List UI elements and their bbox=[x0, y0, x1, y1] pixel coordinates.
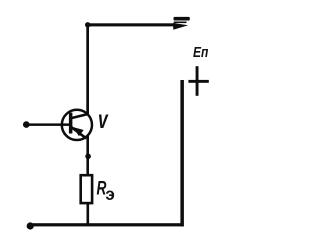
wire bottom rail bbox=[30, 223, 184, 226]
wire emitter vertical bbox=[86, 136, 89, 175]
svg-text:Еп: Еп bbox=[193, 44, 209, 61]
emitter slant bbox=[70, 126, 87, 140]
emitter arrow (PNP, points toward base) bbox=[73, 127, 84, 136]
svg-text:э: э bbox=[105, 184, 114, 205]
node base terminal dot bbox=[23, 121, 30, 128]
wire resistor to bottom rail bbox=[87, 204, 90, 225]
node bottom-left terminal dot bbox=[27, 222, 34, 229]
label R_e subscript э bbox=[105, 184, 114, 205]
wire top horizontal to supply arrow bbox=[87, 23, 176, 26]
collector slant bbox=[72, 113, 89, 119]
resistor R_e body bbox=[79, 174, 93, 205]
wire collector vertical bbox=[86, 23, 89, 115]
power rail bar thick bbox=[174, 17, 190, 21]
wire base lead bbox=[27, 123, 70, 126]
plus sign of supply polarity bbox=[196, 66, 199, 96]
transistor base bar bbox=[69, 113, 73, 134]
node top junction bbox=[85, 22, 90, 27]
node emitter output dot bbox=[85, 154, 91, 160]
wire right rail vertical bbox=[180, 80, 184, 226]
arrowhead to supply bbox=[173, 23, 188, 30]
label R_e (emitter resistor) bbox=[97, 177, 108, 199]
label En (supply voltage) bbox=[193, 44, 209, 61]
label V (transistor) bbox=[98, 104, 109, 133]
svg-text:v: v bbox=[98, 104, 109, 133]
power rail bar thin bbox=[174, 22, 187, 24]
transistor V circle bbox=[62, 110, 92, 140]
